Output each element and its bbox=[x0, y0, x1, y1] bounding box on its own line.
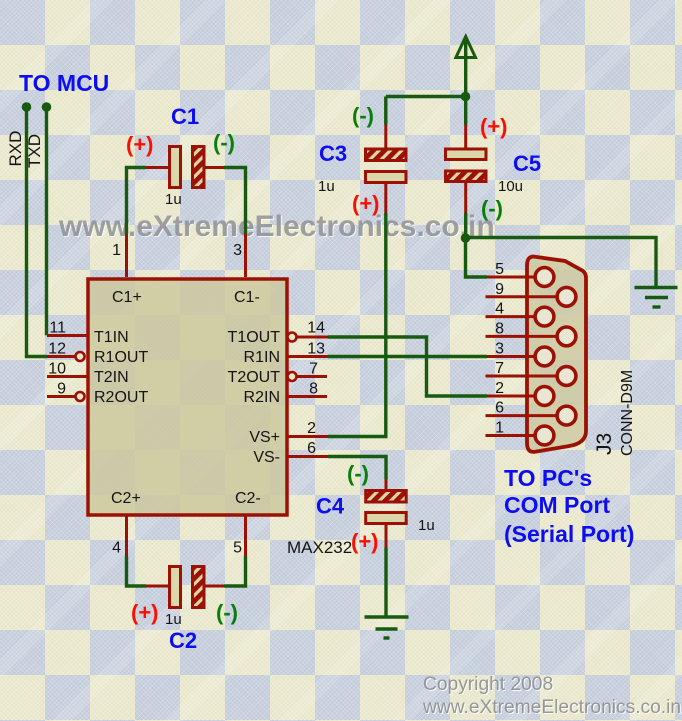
svg-text:1u: 1u bbox=[165, 191, 182, 208]
svg-text:(+): (+) bbox=[126, 132, 154, 157]
svg-text:C4: C4 bbox=[316, 494, 345, 519]
pin 14 bubble bbox=[288, 333, 297, 342]
svg-text:C2: C2 bbox=[169, 628, 197, 653]
svg-text:1: 1 bbox=[112, 242, 121, 259]
connector J3 body bbox=[527, 257, 586, 452]
svg-text:7: 7 bbox=[495, 360, 504, 377]
pin 7 stub T2OUT bbox=[297, 375, 328, 378]
wire RXD vertical bbox=[27, 107, 48, 357]
svg-text:CONN-D9M: CONN-D9M bbox=[619, 370, 636, 456]
svg-text:C2-: C2- bbox=[235, 490, 261, 507]
svg-text:8: 8 bbox=[309, 381, 318, 398]
svg-text:1u: 1u bbox=[165, 611, 182, 628]
svg-text:(+): (+) bbox=[351, 529, 379, 554]
pin 4 stub bbox=[125, 516, 128, 557]
svg-text:2: 2 bbox=[307, 420, 316, 437]
watermark copyright bbox=[423, 674, 681, 719]
svg-text:3: 3 bbox=[233, 242, 242, 259]
svg-text:1: 1 bbox=[495, 420, 504, 437]
wire VS- to C4 bbox=[328, 457, 386, 480]
svg-text:C2+: C2+ bbox=[111, 490, 141, 507]
svg-text:5: 5 bbox=[495, 261, 504, 278]
svg-text:(-): (-) bbox=[347, 461, 369, 486]
pin 8 stub R2IN bbox=[287, 395, 328, 398]
svg-text:C1+: C1+ bbox=[112, 289, 142, 306]
capacitor C4 top lead bbox=[385, 480, 388, 491]
capacitor C4 plate bottom bbox=[366, 513, 407, 524]
capacitor C2 wires bbox=[127, 556, 147, 586]
svg-text:1u: 1u bbox=[318, 178, 335, 195]
pin 7 bubble bbox=[288, 372, 297, 381]
svg-text:(-): (-) bbox=[213, 130, 235, 155]
pin 3 stub bbox=[244, 234, 247, 278]
pin 14 stub T1OUT bbox=[297, 336, 329, 339]
wire R1IN to DB9 pin3 bbox=[328, 355, 487, 358]
svg-text:9: 9 bbox=[57, 381, 66, 398]
svg-text:(-): (-) bbox=[481, 196, 503, 221]
node bottom junction bbox=[461, 233, 471, 243]
svg-text:(Serial Port): (Serial Port) bbox=[504, 521, 634, 547]
svg-text:VS+: VS+ bbox=[249, 429, 280, 446]
pin 1 stub bbox=[125, 234, 128, 278]
capacitor C2 leads bbox=[146, 585, 169, 588]
capacitor C3 bottom lead bbox=[384, 183, 387, 214]
J3 pin circles left column bbox=[535, 268, 554, 287]
svg-text:R2OUT: R2OUT bbox=[94, 389, 148, 406]
svg-text:J3: J3 bbox=[593, 433, 616, 455]
capacitor C3 plate top (hatched) bbox=[366, 149, 407, 161]
svg-text:(+): (+) bbox=[131, 600, 159, 625]
op-amp U1 MAX232 body bbox=[88, 279, 287, 515]
svg-text:C1-: C1- bbox=[234, 289, 260, 306]
pin 9 bubble bbox=[76, 392, 85, 401]
svg-text:T2OUT: T2OUT bbox=[228, 369, 281, 386]
svg-text:VS-: VS- bbox=[253, 449, 280, 466]
capacitor C1 wires bbox=[127, 168, 147, 235]
node top junction bbox=[461, 92, 471, 102]
svg-text:(+): (+) bbox=[352, 191, 380, 216]
capacitor C5 plate top bbox=[446, 149, 487, 160]
svg-text:3: 3 bbox=[495, 341, 504, 358]
svg-text:1u: 1u bbox=[418, 517, 435, 534]
capacitor C1 leads bbox=[146, 166, 169, 169]
pin 13 stub R1IN bbox=[287, 355, 329, 358]
pin 11 stub T1IN bbox=[47, 334, 87, 337]
svg-text:T2IN: T2IN bbox=[94, 369, 129, 386]
svg-text:6: 6 bbox=[495, 400, 504, 417]
capacitor C3 top lead bbox=[384, 97, 387, 125]
capacitor C2 plate - (hatched) bbox=[193, 567, 205, 608]
ground right bbox=[635, 286, 678, 289]
node TXD terminal dot bbox=[42, 102, 52, 112]
svg-text:C3: C3 bbox=[319, 141, 347, 166]
svg-text:C1: C1 bbox=[171, 104, 199, 129]
svg-text:(+): (+) bbox=[480, 114, 508, 139]
svg-text:13: 13 bbox=[307, 341, 325, 358]
wire VS+ to C3 bbox=[328, 213, 386, 437]
svg-text:MAX232: MAX232 bbox=[287, 538, 352, 557]
svg-text:10u: 10u bbox=[498, 178, 523, 195]
capacitor C2 plate + bbox=[170, 567, 181, 608]
pin 5 stub bbox=[244, 516, 247, 557]
capacitor C5 bottom lead bbox=[464, 182, 467, 214]
svg-text:T1IN: T1IN bbox=[94, 329, 129, 346]
capacitor C4 plate top (hatched) bbox=[366, 491, 407, 503]
svg-text:9: 9 bbox=[495, 281, 504, 298]
svg-text:2: 2 bbox=[495, 380, 504, 397]
node RXD terminal dot bbox=[22, 102, 32, 112]
watermark center bbox=[59, 212, 495, 242]
svg-text:(-): (-) bbox=[216, 600, 238, 625]
J3 pin circles right column bbox=[557, 287, 576, 306]
svg-text:4: 4 bbox=[495, 301, 504, 318]
svg-text:C5: C5 bbox=[513, 151, 541, 176]
svg-text:7: 7 bbox=[309, 361, 318, 378]
capacitor C3 plate bottom bbox=[366, 172, 407, 183]
svg-text:8: 8 bbox=[495, 320, 504, 337]
capacitor C1 plate - (hatched) bbox=[193, 147, 205, 188]
svg-text:T1OUT: T1OUT bbox=[228, 329, 281, 346]
J3 pin lines bbox=[487, 276, 535, 279]
svg-text:4: 4 bbox=[112, 540, 121, 557]
wire top rail bbox=[386, 95, 466, 98]
pin 12 bubble bbox=[76, 352, 85, 361]
capacitor C5 top lead bbox=[464, 97, 467, 125]
pin 10 stub T2IN bbox=[47, 375, 87, 378]
svg-text:TO MCU: TO MCU bbox=[19, 70, 109, 96]
wire junction to DB9 pin5 bbox=[466, 238, 488, 277]
svg-text:10: 10 bbox=[48, 361, 66, 378]
svg-text:RXD: RXD bbox=[6, 131, 25, 167]
svg-text:R2IN: R2IN bbox=[244, 389, 280, 406]
svg-text:R1OUT: R1OUT bbox=[94, 349, 148, 366]
pin 6 stub VS- bbox=[287, 455, 329, 458]
capacitor C5 plate bottom (hatched) bbox=[446, 171, 487, 182]
svg-text:COM Port: COM Port bbox=[504, 492, 610, 518]
svg-text:6: 6 bbox=[307, 440, 316, 457]
svg-text:12: 12 bbox=[48, 341, 66, 358]
pin 2 stub VS+ bbox=[287, 435, 329, 438]
svg-text:5: 5 bbox=[233, 540, 242, 557]
wire junction to ground right bbox=[466, 238, 657, 288]
capacitor C1 plate + bbox=[170, 147, 181, 188]
power arrow bbox=[456, 37, 476, 58]
capacitor C4 bottom lead bbox=[385, 524, 388, 548]
svg-text:11: 11 bbox=[49, 320, 66, 337]
svg-text:(-): (-) bbox=[352, 103, 374, 128]
pin 12 stub R1OUT bbox=[47, 355, 75, 358]
wire T1OUT to DB9 pin2 bbox=[328, 337, 487, 396]
svg-text:TO PC's: TO PC's bbox=[504, 465, 592, 491]
ground under C4 bbox=[365, 615, 409, 618]
svg-text:R1IN: R1IN bbox=[244, 349, 280, 366]
svg-text:14: 14 bbox=[307, 320, 325, 337]
svg-text:TXD: TXD bbox=[25, 134, 44, 168]
wire TXD vertical bbox=[45, 107, 48, 335]
pin 9 stub R2OUT bbox=[47, 395, 75, 398]
